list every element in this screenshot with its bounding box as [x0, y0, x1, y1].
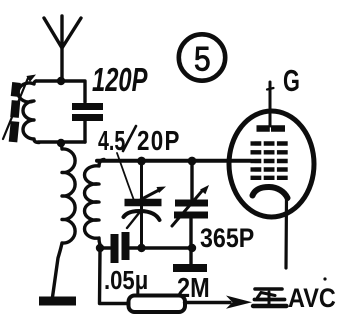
coil L2 (primary) [53, 145, 76, 297]
tube V1 grid row 5 [251, 176, 289, 180]
wire resistor to AVC arrow [185, 296, 253, 309]
wire top rail (grid line) [97, 159, 250, 163]
tube V1 grid row 2 [251, 150, 289, 154]
wire node E to node G [142, 246, 193, 249]
wire node D to 365P [190, 163, 193, 199]
ground (under L2) [39, 297, 76, 306]
svg-text:2M: 2M [177, 273, 210, 303]
node C (trimmer tap) [137, 157, 146, 166]
node E (cap junction) [137, 244, 145, 252]
trimmer capacitor C2 4.5/20P [124, 187, 167, 229]
svg-text:20P: 20P [137, 126, 181, 157]
label 4.5/20P [98, 126, 181, 157]
wire cathode lead [284, 198, 288, 268]
wire node C to trimmer [140, 163, 143, 198]
tube V1 grid row 1 [251, 141, 289, 145]
wire 365P to ground [189, 219, 192, 264]
node F (L3 bottom) [96, 244, 104, 252]
ground (under 365P) [173, 264, 207, 272]
node G (365P bottom junction) [188, 244, 196, 252]
wire node F to resistor [100, 250, 129, 304]
wire capacitor 120P bottom lead [83, 121, 86, 142]
tube V1 envelope [229, 111, 314, 217]
label AVC [288, 277, 336, 313]
label zhi (to) [253, 289, 287, 306]
svg-text:.05μ: .05μ [104, 266, 148, 295]
figure number 5 [179, 34, 225, 80]
svg-text:5: 5 [194, 40, 211, 78]
svg-text:AVC: AVC [288, 284, 336, 314]
antenna coil L1 [18, 81, 39, 143]
node A (antenna / tank top) [57, 77, 65, 85]
svg-text:4.5: 4.5 [98, 126, 125, 157]
tube V1 grid row 3 [251, 159, 289, 163]
arrow (adjustable core) [3, 75, 36, 140]
svg-text:365P: 365P [200, 223, 254, 253]
wire tank bottom [38, 140, 85, 143]
svg-text:120P: 120P [92, 62, 148, 99]
wire trimmer to node E [140, 205, 143, 246]
leader line (label to trimmer) [117, 153, 134, 199]
antenna [44, 16, 81, 48]
wire antenna lead [60, 48, 63, 80]
svg-text:G: G [283, 63, 300, 98]
node D (365P tap) [188, 157, 197, 166]
tube V1 grid row 4 [251, 167, 289, 171]
tube V1 cathode [253, 187, 288, 198]
tube V1 top electrode bar [257, 125, 286, 132]
capacitor C3 .05u [100, 232, 141, 263]
coil L3 (secondary) [85, 160, 104, 248]
node B (tank bottom) [57, 139, 65, 147]
wire grid top cap lead [267, 82, 274, 126]
L1 core (dashed bars) [15, 83, 17, 97]
capacitor C1 120P [72, 107, 103, 118]
wire node A to capacitor 120P [61, 81, 85, 102]
variable capacitor C4 365P [172, 185, 209, 226]
resistor R1 2M [129, 296, 186, 313]
wire node A to coil L1 top [36, 79, 61, 82]
